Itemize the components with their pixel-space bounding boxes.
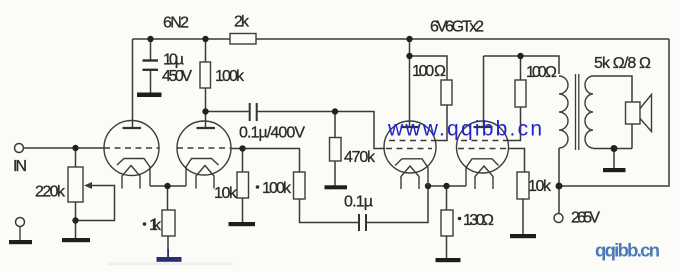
svg-text:www.qqibb.cn: www.qqibb.cn [387,118,542,141]
wire 10u cap top lead [150,39,152,60]
wire V3 grid to 10k R9 [508,149,525,173]
wire pot wiper loop [76,186,115,221]
wire rail to V2 plate node [409,39,411,56]
svg-text:100k: 100k [262,180,292,197]
pentode V2 screen grid [389,140,434,142]
capacitor 0.1u/400V plates [250,103,257,121]
pentode V3 cathode [466,159,499,186]
wire primary bottom to 265V node [558,148,560,186]
terminal IN ground [16,218,25,227]
wire speaker node to ground [613,149,615,169]
wire V1b grid node to 100k R6 [231,149,300,173]
resistor 100R R8 [515,80,526,107]
wire 6V6 common cathode [428,185,466,187]
capacitor 10u plate top [143,59,159,61]
svg-text:6V6GTx2: 6V6GTx2 [430,19,484,36]
wire 100R R8 top lead [520,56,522,80]
wire 1k top lead [167,186,169,210]
wire speaker bottom lead [631,124,633,149]
junction dot V3 screen tap [517,53,523,59]
wire V1 common cathode [150,185,186,187]
terminal 265V [554,214,563,223]
potentiometer 220k body [68,167,83,202]
wire V3 plate to transformer primary [484,56,560,74]
transformer T1 core [576,74,579,150]
junction dot V1b plate node [202,108,208,114]
wire 130R bottom to ground [446,236,448,258]
capacitor 0.1u plates [359,214,366,231]
svg-text:qqibb.cn: qqibb.cn [595,240,660,261]
ground 470k [325,185,348,189]
svg-text:10µ: 10µ [163,52,184,69]
wire pot top lead [75,148,77,167]
wire 100R to V2 screen grid [434,105,447,141]
pentode V3 plate [474,126,493,128]
resistor 130R [441,210,453,236]
triode V1b grid [177,147,231,149]
wire pot bottom to ground [75,202,77,238]
triode V1a cathode [117,159,150,187]
triode V1a grid [104,147,159,149]
junction dot node B [332,108,338,114]
junction dot rail-cap [147,36,153,42]
ground IN terminal [9,240,32,244]
triode V1b heater [196,166,214,189]
svg-text:265V: 265V [571,210,600,227]
ground 10k R9 [510,234,536,238]
bullet before 100k R6 [256,185,260,189]
triode V1b plate [197,127,216,129]
ground 10u cap [137,93,162,98]
capacitor 10u plate bottom [143,69,159,71]
wire V2 screen tap to 100R [410,56,448,80]
triode V1b envelope [177,121,231,175]
ground 10k R5 [229,222,256,226]
triode V1a plate [123,127,142,129]
svg-text:0.1µ/400V: 0.1µ/400V [239,125,305,142]
resistor 100R R7 [441,80,452,105]
junction dot pot bottom [72,217,78,223]
svg-text:130Ω: 130Ω [463,212,494,229]
pentode V2 cathode [395,159,428,186]
bullet before 1k [143,222,147,226]
wire 10k R5 top lead [242,149,244,173]
wire coupling cap to node B [258,111,336,113]
triode V1a heater [122,166,140,189]
speaker LS body [626,102,641,124]
wire 1k bottom lead [167,236,169,251]
triode V1a envelope [104,121,159,176]
wire 470k bottom to ground [334,161,336,186]
junction dot cathode-feedback [425,183,431,189]
resistor 1k [162,210,175,236]
wire secondary top to speaker [593,76,632,102]
wire 470k top lead [334,112,336,138]
wire 100k R2 top lead [205,39,207,62]
resistor 2k [230,34,256,45]
wire 0.1u cap to 6V6 cathodes [367,186,429,223]
pentode V3 envelope [457,121,509,173]
ground 130R [436,258,461,262]
svg-text:450V: 450V [162,68,192,85]
pentode V2 control grid [386,148,432,150]
junction dot 265V node [556,183,563,190]
svg-text:220k: 220k [35,184,66,201]
svg-text:10k: 10k [528,178,552,195]
resistor 100k R6 [294,172,306,199]
bullet before 130R [458,217,462,221]
wire V3 plate lead [483,56,485,127]
ground speaker [603,168,626,172]
wire 10u cap to ground [150,71,152,94]
wire node B to 6V6 V2 grid [335,112,385,149]
svg-text:470k: 470k [344,149,376,166]
pentode V2 heater [401,166,419,189]
resistor 10k R5 [237,172,249,198]
wire 130R top lead [446,186,448,210]
ground 1k (blue tinted) [157,249,182,262]
junction dot cathode-130R [443,183,449,189]
wire 10k R5 to ground [242,198,244,222]
wire B+ top rail [133,38,670,40]
junction dot V2 plate node [406,53,412,59]
pentode V3 screen grid [461,140,507,142]
svg-text:2k: 2k [234,14,250,31]
svg-text:5k Ω/8 Ω: 5k Ω/8 Ω [594,55,651,72]
junction dot speaker-ground [611,145,618,152]
junction dot rail-100k [202,36,208,42]
wire V2 plate lead [409,56,411,127]
wire IN ground lead [19,227,21,241]
svg-text:1k: 1k [149,217,162,234]
junction dot V1b grid node [239,145,245,151]
wire 10k R9 to ground [522,199,524,234]
svg-text:6N2: 6N2 [163,15,189,32]
resistor 470k [330,138,342,162]
pentode V3 control grid [458,148,508,150]
speaker LS horn [640,95,652,132]
wire 100k R6 bottom to 0.1u cap [300,199,359,223]
svg-text:100 Ω: 100 Ω [526,64,557,81]
wire 100R R8 to V3 screen grid [507,107,521,141]
svg-text:10k: 10k [214,185,238,202]
pentode V2 envelope [384,121,436,173]
wire plate node to coupling cap [206,111,249,113]
resistor 100k R2 [200,62,211,88]
scan artifact bottom band [108,263,233,266]
transformer T1 secondary winding [585,76,593,148]
svg-text:0.1µ: 0.1µ [344,194,373,211]
wire IN to V1a grid [24,147,105,149]
wire right edge B+ return [559,39,669,186]
junction dot rail-V2 [406,36,412,42]
terminal IN hot [15,144,24,153]
junction dot cathode-1k [164,183,170,189]
potentiometer 220k wiper arrow [84,182,92,189]
ground pot [62,238,90,242]
svg-text:100 Ω: 100 Ω [412,63,446,80]
wire 100k R2 bottom to V1b plate [205,88,207,128]
svg-text:IN: IN [13,158,27,175]
wire tube V1a plate lead [132,39,134,128]
wire secondary bottom [593,148,632,150]
triode V1b cathode [186,159,219,187]
wire 265V terminal lead [558,186,560,214]
resistor 10k R9 [517,172,529,199]
svg-text:100k: 100k [215,68,245,85]
transformer T1 primary winding [559,76,568,148]
junction dot input-grid [72,145,78,151]
pentode V2 plate [401,126,420,128]
pentode V3 heater [475,166,493,189]
